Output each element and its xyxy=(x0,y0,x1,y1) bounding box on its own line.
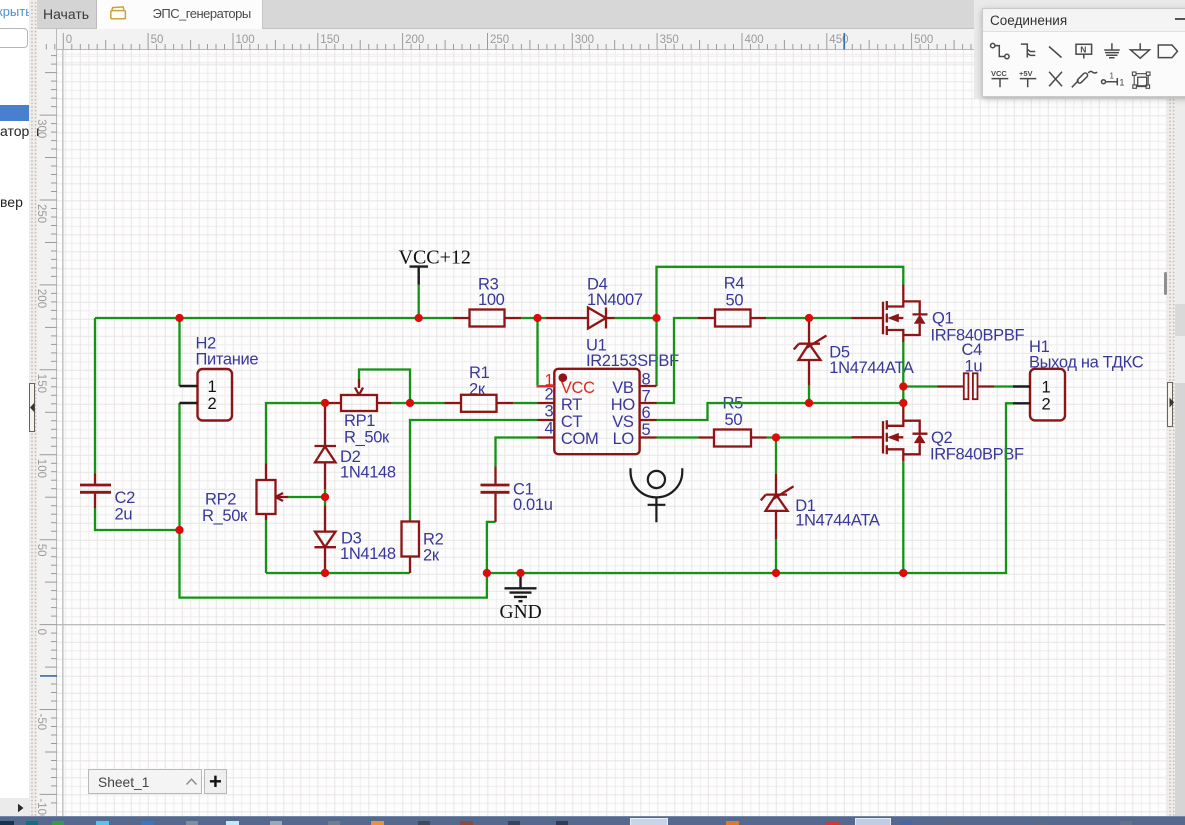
wire GND rail to H1 pin2 xyxy=(487,403,1013,573)
right resizer strip + scrollbar xyxy=(1167,0,1175,816)
wire VB vertical and top rail to Q1 drain xyxy=(657,267,904,386)
wire C4 to H1 pin1 xyxy=(994,385,1013,387)
U1 pin 2 stub xyxy=(538,402,555,404)
junction node 12 xyxy=(321,493,329,501)
junction node 17 xyxy=(772,569,780,577)
wire RP1 to R1 xyxy=(391,402,445,404)
wire U1 pin5 LO to R5 xyxy=(657,436,699,438)
capacitor C4 xyxy=(938,385,995,387)
pluto decoration symbol xyxy=(631,468,683,497)
svg-text:1: 1 xyxy=(1110,72,1115,81)
zener diode D1 xyxy=(761,474,794,539)
net flag VCC+12 xyxy=(410,267,429,285)
wire R1 to U1 pin2 xyxy=(513,402,538,404)
junction node 3 xyxy=(533,314,541,322)
svg-text:1: 1 xyxy=(1119,78,1124,89)
resistor R4 xyxy=(698,317,766,319)
diode D3 xyxy=(324,506,326,532)
left panel xyxy=(0,0,29,816)
wire RP1 wiper loop xyxy=(359,370,410,404)
H2 pin 2 stub xyxy=(180,402,198,404)
junction node 9 xyxy=(899,382,907,390)
wire RP1 left to RP2 top xyxy=(266,403,325,464)
junction node 11 xyxy=(772,433,780,441)
junction node 10 xyxy=(899,399,907,407)
sheet border left xyxy=(62,50,64,816)
U1 pin 7 stub xyxy=(640,402,657,404)
wire U1 pin4 COM to C1 xyxy=(496,438,538,467)
capacitor C2 xyxy=(94,474,96,509)
wire U1 pin7 HO to R4 xyxy=(657,318,699,403)
wire H2 pin1 leg xyxy=(178,318,180,386)
wire R3 to D4 xyxy=(521,317,546,319)
junction node 7 xyxy=(406,399,414,407)
U1 pin 6 stub xyxy=(640,419,657,421)
junction node 4 xyxy=(652,314,660,322)
diode D2 xyxy=(324,403,326,446)
resistor R3 xyxy=(453,317,521,319)
sheet tab xyxy=(88,769,202,794)
wire node to C4 xyxy=(903,385,937,387)
palette Соединения xyxy=(982,8,1185,97)
wire U1 pin6 VS jog to half-bridge node xyxy=(657,403,904,420)
wire R5 to Q2 gate xyxy=(767,436,853,438)
transistor Q2 xyxy=(852,404,928,462)
junction node 5 xyxy=(805,314,813,322)
wire D5 bottom xyxy=(808,385,810,403)
wire D4 to VB node xyxy=(615,317,657,319)
transistor Q1 xyxy=(852,285,928,343)
wire U1 pin3 CT to R2 xyxy=(410,420,538,522)
junction node 1 xyxy=(175,314,183,322)
U1 pin 5 stub xyxy=(640,436,657,438)
op-amp U1 IR2153SPBF body xyxy=(554,369,639,454)
junction node 15 xyxy=(483,569,491,577)
U1 pin 1 stub (selected) xyxy=(537,385,555,387)
resistor R5 xyxy=(699,436,767,438)
wire C2 top xyxy=(94,318,96,474)
inner canvas scrollbar sliver xyxy=(1164,272,1168,295)
resistor R2 xyxy=(409,557,411,574)
wire Q1 source to node xyxy=(902,342,904,404)
potentiometer RP1 xyxy=(326,402,391,404)
wire RP2 bottom xyxy=(265,520,267,573)
svg-text:VCC: VCC xyxy=(991,69,1007,78)
diode D4 xyxy=(546,308,615,329)
capacitor C1 xyxy=(494,467,496,522)
H1 pin 1 stub xyxy=(1013,385,1030,387)
ruler backgrounds xyxy=(37,29,1168,50)
top tab bar xyxy=(37,0,1185,29)
connector H2 body xyxy=(198,369,233,421)
zener diode D5 xyxy=(794,318,827,385)
junction node 6 xyxy=(321,399,329,407)
junction node 16 xyxy=(516,569,524,577)
H1 pin 2 stub xyxy=(1013,402,1030,404)
taskbar xyxy=(0,816,1185,825)
resistor R1 xyxy=(445,402,514,404)
ground GND symbol xyxy=(505,573,537,601)
wire bottom rail D3 R2 xyxy=(266,572,410,574)
potentiometer RP2 xyxy=(265,464,267,521)
junction node 13 xyxy=(175,526,183,534)
U1 pin 3 stub xyxy=(538,419,555,421)
sheet border bottom xyxy=(57,624,1165,626)
wire node to U1 pin1 xyxy=(536,318,538,385)
U1 pin1 marker dot xyxy=(559,373,568,382)
connector H1 body xyxy=(1030,369,1065,421)
junction node 18 xyxy=(899,569,907,577)
left resizer strip xyxy=(29,0,37,816)
wire at D2 anode node xyxy=(324,489,326,506)
wire R4 to Q1 gate xyxy=(766,317,852,319)
svg-text:+5V: +5V xyxy=(1019,69,1033,78)
wire C2 bottom xyxy=(95,508,180,530)
H2 pin 1 stub xyxy=(180,385,198,387)
svg-text:N: N xyxy=(1080,45,1086,55)
U1 pin 8 stub xyxy=(640,385,657,387)
wire main VCC rail left xyxy=(95,317,453,319)
U1 pin 4 stub xyxy=(538,436,555,438)
wire RP2 wiper to D2 D3 node xyxy=(288,496,325,498)
wire VCC flag drop xyxy=(418,285,420,318)
wire D1 top xyxy=(775,438,777,475)
junction node 14 xyxy=(321,569,329,577)
junction node 8 xyxy=(805,399,813,407)
junction node 2 xyxy=(415,314,423,322)
wire Q2 source to rail xyxy=(902,461,904,573)
wire H2 pin2 leg xyxy=(178,403,180,530)
wire bottom left rail to GND xyxy=(180,522,496,598)
wire D1 bottom xyxy=(775,539,777,573)
